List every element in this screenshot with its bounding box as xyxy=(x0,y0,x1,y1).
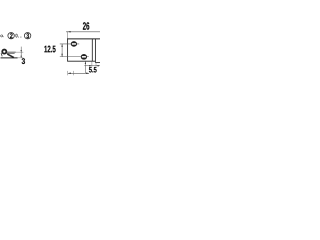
dimension 5.5: dim line xyxy=(84,65,100,67)
left edge x extension stub xyxy=(67,71,69,75)
side view: clamp loop (rolled ring) xyxy=(2,50,6,54)
mechanical drawing of cable clamp: side view (left) and top view (right) xyxy=(0,0,100,100)
lower dimension: dim line xyxy=(68,72,89,74)
side view: base plate line xyxy=(1,57,18,59)
dimension text 3 xyxy=(22,58,25,64)
dimension 26: dim line xyxy=(66,31,100,33)
top view: strap tail bottom edge step xyxy=(95,62,100,64)
top view: inner vertical line (plate end fold) xyxy=(91,39,93,61)
lower dimension: left arrowhead xyxy=(68,73,71,75)
top view: top edge xyxy=(67,38,100,40)
dimension 5.5: left-pointing arrowhead xyxy=(96,65,99,66)
lower dimension: right arrowhead xyxy=(86,73,89,75)
side view: bent foot diagonal xyxy=(7,54,14,58)
balloon callout 2 xyxy=(8,33,14,39)
top view: left edge xyxy=(67,38,69,61)
tiny note "0." between balloons xyxy=(16,34,19,38)
extension line from base xyxy=(18,57,24,59)
hole 2 centerline xyxy=(60,56,89,58)
side view: strap lower line xyxy=(7,52,15,54)
dimension 12.5: dim line xyxy=(61,44,63,57)
dimension text 26 xyxy=(83,22,89,30)
dimension 3: lower arrowhead xyxy=(21,56,22,58)
dimension 5.5: right-pointing arrowhead xyxy=(89,65,92,66)
hole 2 x extension line with up arrow xyxy=(84,61,86,73)
dimension 12.5: bottom arrowhead xyxy=(61,54,62,57)
screw head in hole 2 (slotted) xyxy=(81,54,87,60)
tiny note "0." before balloon 2 xyxy=(0,35,4,38)
top view: loop edge vertical line xyxy=(94,39,96,63)
dimension 26: left arrowhead xyxy=(68,31,71,33)
dimension text 12.5 xyxy=(44,46,55,53)
extension line from strap top xyxy=(16,51,23,53)
hole 1 x extension stub xyxy=(73,71,75,75)
dimension 3: upper arrowhead xyxy=(21,50,22,52)
dimension 5.5: left extension xyxy=(91,61,93,66)
screw head in hole 1 (slotted) xyxy=(71,41,77,47)
dimension 5.5: right extension xyxy=(95,63,97,67)
top view: left extension above rect xyxy=(67,31,69,39)
hole 1 centerline xyxy=(60,43,79,45)
side view: strap upper line xyxy=(7,51,16,53)
dimension 3: vertical dim line xyxy=(20,47,22,58)
dimension text 5.5 xyxy=(89,67,97,73)
loop lower-left tail xyxy=(1,53,2,56)
top view: bottom edge xyxy=(67,60,95,62)
balloon callout 3 xyxy=(24,33,30,39)
dimension 12.5: top arrowhead xyxy=(61,44,62,47)
